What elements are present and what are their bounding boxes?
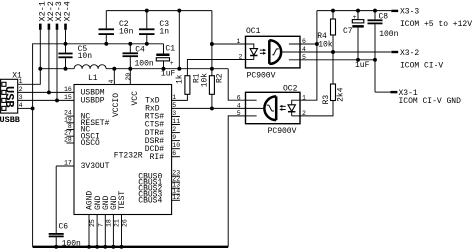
wire USBDP row	[18, 99, 74, 101]
svg-text:USBDP: USBDP	[81, 97, 105, 106]
svg-text:18: 18	[106, 219, 113, 227]
OC1 pin 5 wire ICOM gnd row	[289, 59, 375, 61]
IC pin 16 USBDM	[64, 86, 105, 98]
OC2 pin 5 inner wire	[246, 115, 257, 117]
svg-text:X2-4: X2-4	[63, 1, 73, 21]
IC pin 2 DTR#	[145, 126, 180, 138]
svg-text:10k: 10k	[318, 40, 333, 49]
IC pin 11 CTS#	[145, 118, 180, 130]
svg-text:3V3OUT: 3V3OUT	[81, 162, 110, 171]
node X2-3 USBDP junction	[55, 98, 59, 102]
svg-text:4: 4	[108, 80, 115, 84]
svg-text:PC900V: PC900V	[247, 71, 276, 80]
wire VCC riser x212	[211, 11, 213, 76]
IC pin 25 AGND	[86, 191, 97, 249]
IC pin 24 NC	[64, 110, 90, 122]
svg-text:VCC: VCC	[131, 91, 140, 106]
inductor L1	[74, 65, 106, 83]
svg-text:10: 10	[172, 142, 180, 149]
svg-text:PC900V: PC900V	[268, 127, 297, 136]
svg-text:10k: 10k	[200, 73, 209, 88]
connector X3-1	[391, 89, 462, 106]
IC pin 20 VCC	[125, 73, 140, 106]
IC pin 8 NC	[67, 123, 91, 135]
svg-text:15: 15	[64, 94, 72, 101]
svg-text:FT232R: FT232R	[114, 152, 143, 161]
svg-text:21: 21	[114, 219, 121, 227]
IC pin 26 TEST	[118, 191, 129, 249]
IC pin 1 TxD	[145, 94, 176, 106]
svg-text:2: 2	[239, 54, 243, 61]
node X1 pin4 GND junction	[31, 106, 35, 110]
svg-text:1: 1	[19, 78, 23, 85]
svg-text:USBB: USBB	[0, 115, 20, 125]
svg-text:C7: C7	[343, 27, 353, 36]
OC1 pin 4 wire output row to X3-2	[281, 51, 390, 53]
capacitor C3	[139, 11, 169, 44]
svg-text:OC1: OC1	[246, 27, 261, 36]
capacitor C5	[58, 45, 92, 69]
svg-text:X3-2: X3-2	[400, 49, 419, 58]
svg-text:2: 2	[172, 126, 176, 133]
svg-text:VCCIO: VCCIO	[112, 93, 121, 117]
svg-text:ICOM +5 to +12V: ICOM +5 to +12V	[400, 20, 472, 29]
node R4 top junction	[331, 9, 335, 13]
capacitor C8	[368, 11, 399, 93]
svg-text:100n: 100n	[62, 239, 81, 248]
svg-text:6: 6	[172, 150, 176, 157]
wire VCC pin riser	[129, 69, 131, 85]
svg-text:6: 6	[237, 94, 241, 101]
node C7 bottom junction	[356, 58, 360, 62]
svg-text:1k: 1k	[176, 74, 185, 84]
node X2-2 USBDM junction	[47, 90, 51, 94]
wire X2-2 column	[48, 30, 50, 93]
svg-text:5: 5	[302, 54, 306, 61]
svg-text:R1: R1	[192, 73, 201, 83]
wire OC2 vcc link	[228, 69, 245, 101]
IC pin 15 USBDP	[64, 94, 105, 106]
connector X3-2	[391, 49, 443, 70]
svg-text:C6: C6	[59, 223, 69, 232]
IC pin 28 OSCO	[64, 137, 100, 149]
svg-text:1uF: 1uF	[161, 69, 176, 78]
svg-text:100n: 100n	[379, 30, 398, 39]
wire X2-3 column	[56, 30, 58, 101]
svg-text:OSCO: OSCO	[81, 139, 100, 148]
svg-text:25: 25	[89, 219, 96, 227]
node VBUS X2-1 junction	[38, 67, 42, 71]
IC pin 5 RxD	[145, 102, 176, 114]
wire VCC riser x179	[178, 11, 180, 69]
connector X2-4	[63, 1, 73, 30]
wire OC1 pin1 row	[212, 43, 246, 45]
svg-text:ICOM CI-V: ICOM CI-V	[400, 61, 443, 70]
svg-text:11: 11	[172, 118, 180, 125]
svg-text:4: 4	[19, 102, 23, 109]
IC pin 19 RESET#	[64, 116, 110, 128]
connector X2-3	[54, 1, 64, 30]
svg-text:10n: 10n	[78, 52, 93, 61]
svg-text:2k4: 2k4	[337, 87, 346, 102]
svg-text:TEST: TEST	[118, 191, 127, 210]
optocoupler OC2	[246, 85, 301, 137]
OC1 pin 6 wire	[289, 43, 317, 45]
IC pin 22 CBUS1	[138, 176, 180, 188]
wire 3V3OUT riser	[55, 166, 57, 233]
IC pin 18 GND	[102, 195, 113, 248]
node C6 ground junction	[54, 245, 58, 249]
resistor R1	[172, 60, 246, 101]
svg-text:6: 6	[302, 38, 306, 45]
svg-text:RI#: RI#	[150, 153, 165, 162]
capacitor C1	[156, 44, 175, 79]
svg-text:12: 12	[172, 194, 180, 201]
wire USBDM row	[18, 91, 74, 93]
node C3 bottom junction	[145, 42, 149, 46]
OC1 LED	[246, 44, 258, 60]
wire X2-4 column	[65, 30, 67, 53]
wire OC2 pin2 row to R3	[300, 101, 333, 116]
svg-text:10n: 10n	[119, 28, 134, 37]
svg-text:4: 4	[237, 102, 241, 109]
svg-text:USB: USB	[2, 86, 16, 108]
node C2 bottom junction	[104, 42, 108, 46]
wire RxD row	[172, 107, 246, 109]
ground bus	[33, 246, 229, 248]
node riser bottom junction	[177, 67, 181, 71]
IC pin 7 GND	[94, 195, 105, 248]
node C7 top junction	[356, 9, 360, 13]
IC pin 17 3V3OUT	[56, 160, 109, 172]
node C3 top junction	[145, 9, 149, 13]
svg-text:17: 17	[64, 160, 72, 167]
connector X2-2	[46, 1, 56, 30]
wire VCC top rail	[106, 10, 212, 12]
resistor R4	[317, 11, 335, 52]
svg-text:1: 1	[172, 94, 176, 101]
node OC1 anode junction	[210, 42, 214, 46]
svg-text:R2: R2	[216, 73, 225, 83]
wire X3-1 row	[375, 91, 391, 93]
svg-text:5: 5	[172, 102, 176, 109]
node OC1 pin6 riser junction	[315, 42, 319, 46]
capacitor C6	[49, 223, 81, 249]
svg-text:16: 16	[64, 86, 72, 93]
OC2 pin 4 inner wire	[246, 107, 265, 109]
IC U1 FT232R box	[74, 85, 172, 215]
svg-text:26: 26	[122, 219, 129, 227]
wire X1 pin4 to GND column	[18, 107, 33, 109]
svg-text:100n: 100n	[135, 59, 154, 68]
svg-text:20: 20	[125, 73, 132, 81]
node VCCIO junction	[112, 67, 116, 71]
node riser top junction	[177, 9, 181, 13]
connector X3-3	[391, 8, 472, 29]
capacitor C2	[99, 11, 134, 44]
IC pin 9 DSR#	[145, 134, 180, 146]
svg-text:4: 4	[302, 46, 306, 53]
OC2 LED arrows	[279, 105, 285, 111]
IC pin 4 VCCIO	[108, 80, 121, 118]
node C8 top junction	[373, 9, 377, 13]
wire ICOM V+ top rail	[317, 10, 391, 12]
OC2 pin 6 inner wire	[246, 99, 257, 101]
svg-text:1uF: 1uF	[355, 61, 370, 70]
svg-text:7: 7	[97, 223, 104, 227]
wire GND top rail	[33, 44, 164, 247]
node R3 top junction	[331, 50, 335, 54]
OC2 detector	[264, 96, 276, 120]
node C4 top junction	[128, 42, 132, 46]
IC pin 3 RTS#	[145, 110, 180, 122]
svg-text:C1: C1	[165, 44, 175, 53]
resistor R3	[322, 52, 346, 104]
IC pin 6 RI#	[150, 150, 180, 162]
OC1 LED arrows	[260, 49, 266, 55]
node VCC pin junction	[128, 67, 132, 71]
svg-text:1n: 1n	[159, 28, 169, 37]
svg-text:R3: R3	[322, 95, 331, 105]
wire VBUS row	[40, 68, 74, 70]
op-amp/optocoupler OC1	[246, 27, 301, 80]
svg-text:28: 28	[64, 137, 72, 144]
svg-text:3: 3	[172, 110, 176, 117]
svg-text:L1: L1	[88, 74, 98, 83]
wire OC2 pin5 to ground bus	[228, 116, 245, 247]
node R2 top junction	[210, 67, 214, 71]
wire OC2 pin1 riser to ICOM V+	[300, 11, 317, 101]
IC pin 14 CBUS3	[138, 188, 180, 200]
connector X1	[0, 72, 23, 125]
IC pin 21 GND	[110, 195, 121, 248]
IC pin 10 DCD#	[145, 142, 180, 154]
wire VCCIO riser	[113, 69, 115, 85]
svg-text:ICOM CI-V GND: ICOM CI-V GND	[399, 97, 462, 106]
node R2 bottom junction	[210, 106, 214, 110]
svg-text:5: 5	[237, 110, 241, 117]
svg-text:CBUS4: CBUS4	[138, 197, 162, 206]
node C5 bottom junction	[64, 67, 68, 71]
IC pin 13 CBUS2	[138, 182, 180, 194]
svg-text:1: 1	[237, 38, 241, 45]
connector X2-1	[38, 1, 48, 30]
OC1 detector	[269, 40, 281, 64]
wire VCC rail	[106, 68, 228, 70]
svg-text:X3-3: X3-3	[400, 8, 419, 17]
wire X2-1 column	[18, 30, 41, 85]
capacitor C7	[343, 11, 370, 70]
resistor R2	[200, 73, 224, 109]
svg-text:9: 9	[172, 134, 176, 141]
node C1 bottom junction	[162, 67, 166, 71]
svg-text:+: +	[170, 60, 174, 67]
OC2 LED	[288, 100, 300, 116]
capacitor C4	[123, 44, 154, 69]
IC pin 27 OSCI	[64, 130, 100, 142]
IC pin 12 CBUS4	[138, 194, 180, 206]
IC pin 23 CBUS0	[138, 170, 180, 182]
node C5 top junction	[64, 42, 68, 46]
node C8 icom-gnd junction	[373, 58, 377, 62]
